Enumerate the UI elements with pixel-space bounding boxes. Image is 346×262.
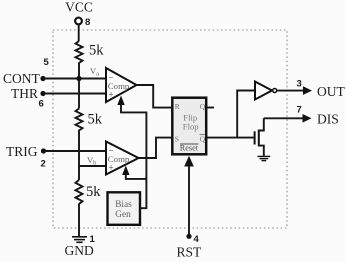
svg-text:GND: GND — [65, 243, 94, 258]
svg-text:Comp: Comp — [108, 81, 130, 91]
svg-text:5: 5 — [44, 57, 50, 68]
svg-text:THR: THR — [11, 86, 38, 101]
transistor Q1 discharge MOSFET — [254, 131, 256, 144]
wire RST to flip-flop reset — [188, 161, 190, 236]
junction node Va on divider — [76, 76, 81, 81]
wire drain lead up to DIS line — [259, 118, 264, 130]
svg-text:2: 2 — [41, 159, 46, 170]
svg-text:DIS: DIS — [317, 112, 339, 127]
svg-text:OUT: OUT — [317, 84, 345, 99]
svg-text:TRIG: TRIG — [6, 144, 38, 159]
wire bias branch to comparator2 — [126, 171, 147, 179]
wire divider segment below Va node — [78, 79, 80, 109]
ground symbol (pin 1) — [72, 237, 87, 243]
pin 8 terminal circle — [75, 18, 82, 25]
resistor R2 5k — [76, 109, 83, 181]
arrow RST into FF — [184, 156, 194, 167]
svg-text:Gen: Gen — [115, 210, 131, 220]
CONT pin dot — [40, 76, 45, 81]
svg-text:7: 7 — [297, 105, 302, 116]
dashed boundary box of IC — [53, 30, 287, 228]
inverter U1 — [255, 82, 272, 100]
wire bias net vertical — [121, 101, 146, 208]
wire TRIG to comparator2 minus input — [44, 150, 107, 152]
svg-text:8: 8 — [85, 17, 90, 28]
TRIG pin dot — [41, 148, 46, 153]
svg-text:5k: 5k — [88, 112, 103, 128]
svg-text:Comp: Comp — [108, 154, 130, 164]
arrow DIS — [303, 114, 312, 123]
flip-flop block — [172, 98, 206, 155]
op-amp comparator 2 (trigger) — [106, 142, 139, 175]
wire inverter output to OUT — [277, 90, 304, 92]
wire branch up to inverter input — [237, 91, 255, 138]
wire Q output stub — [206, 107, 214, 109]
THR pin dot — [40, 91, 45, 96]
ground symbol (transistor source) — [258, 156, 271, 160]
svg-text:3: 3 — [297, 79, 302, 90]
svg-text:+: + — [109, 163, 114, 173]
svg-text:5k: 5k — [89, 43, 104, 59]
resistor R3 5k — [76, 180, 83, 237]
resistor R1 5k — [76, 41, 83, 79]
bias generator block — [108, 192, 141, 225]
wire CONT to comparator minus input — [43, 78, 106, 80]
wire DIS — [264, 117, 305, 119]
svg-text:R: R — [175, 102, 180, 111]
RST pin dot — [186, 234, 191, 239]
op-amp comparator 1 (threshold) — [106, 68, 137, 102]
wire VCC stem — [78, 25, 80, 41]
svg-text:RST: RST — [177, 245, 203, 260]
svg-text:Bias: Bias — [115, 200, 132, 210]
svg-text:S: S — [175, 134, 179, 143]
svg-text:Flop: Flop — [183, 122, 199, 132]
wire source lead down to ground — [259, 146, 264, 156]
arrow bias into comparator2 — [122, 166, 129, 176]
svg-text:CONT: CONT — [3, 71, 41, 86]
svg-text:4: 4 — [194, 234, 200, 245]
wire THR to comparator plus input — [43, 93, 106, 95]
svg-text:Reset: Reset — [180, 143, 199, 152]
svg-text:6: 6 — [39, 99, 44, 110]
svg-text:+: + — [109, 90, 114, 100]
wire Vb tap to comparator2 plus input — [79, 165, 106, 167]
svg-text:5k: 5k — [86, 184, 101, 200]
wire Qbar output to inverter and transistor gate — [206, 137, 254, 139]
arrow bias into comparator1 — [117, 96, 124, 106]
svg-text:Q: Q — [200, 102, 206, 111]
svg-text:Q: Q — [200, 134, 206, 143]
wire comparator2 output to FF S input — [139, 138, 173, 158]
arrow OUT — [303, 86, 312, 95]
svg-text:VCC: VCC — [65, 0, 93, 15]
wire comparator1 output to FF R input — [137, 85, 173, 108]
